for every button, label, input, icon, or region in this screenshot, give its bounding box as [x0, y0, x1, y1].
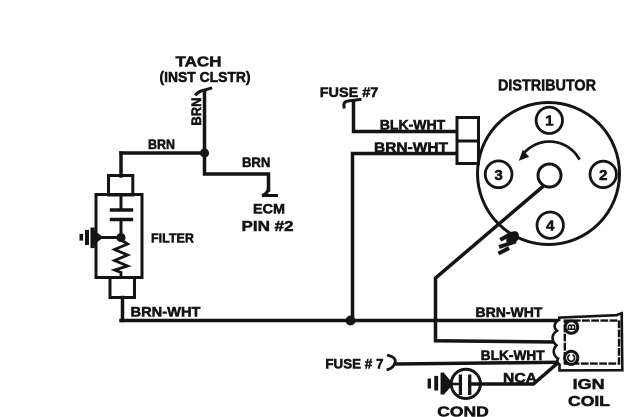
- rotor circle: [538, 164, 561, 187]
- condenser case mid bar: [434, 376, 438, 391]
- ign coil inner dashed box: [565, 321, 619, 364]
- svg-text:IGN: IGN: [573, 377, 605, 393]
- wire TACH vertical (BRN): [203, 91, 207, 154]
- condenser circle: [451, 369, 480, 398]
- ign coil outer case: [553, 313, 623, 370]
- wire plate to inner node: [120, 220, 123, 240]
- terminal circle 1: [536, 107, 562, 133]
- svg-text:DISTRIBUTOR: DISTRIBUTOR: [498, 78, 596, 95]
- svg-text:COIL: COIL: [568, 394, 610, 410]
- wire BLK-WHT to coil C: [397, 362, 558, 364]
- ground hatch stroke 3: [500, 249, 507, 253]
- svg-text:BLK-WHT: BLK-WHT: [481, 348, 546, 363]
- svg-text:BRN: BRN: [148, 137, 175, 152]
- svg-text:COND: COND: [437, 405, 489, 417]
- svg-text:BRN-WHT: BRN-WHT: [476, 305, 544, 320]
- terminal circle 2: [590, 161, 616, 187]
- condenser case tall bar: [441, 373, 445, 395]
- resistor inside filter: [115, 240, 128, 278]
- coil terminal B: [565, 321, 578, 334]
- distributor connector upper pin box: [457, 118, 479, 142]
- terminal circle 4: [537, 212, 563, 238]
- condenser case small bar: [428, 379, 431, 389]
- case capacitor arrow triangle: [94, 231, 102, 244]
- wire BRN-WHT bus horizontal: [121, 319, 566, 323]
- case capacitor tall bar: [90, 228, 94, 249]
- svg-text:BRN-WHT: BRN-WHT: [131, 304, 201, 320]
- svg-text:BLK-WHT: BLK-WHT: [380, 117, 446, 133]
- connector hook fuse bottom: [388, 356, 395, 370]
- wire NCA condenser to coil C: [470, 363, 558, 384]
- condenser internal plates: [460, 376, 469, 393]
- distributor connector lower pin box: [457, 141, 479, 164]
- wire wall to inner node: [97, 236, 121, 239]
- terminal circle 3: [485, 161, 512, 188]
- distributor body circle: [478, 103, 620, 245]
- wire down into filter top: [119, 153, 123, 176]
- filter body box: [96, 195, 142, 278]
- wire junction down to ECM branch: [205, 153, 269, 190]
- svg-text:3: 3: [494, 167, 502, 184]
- svg-text:FUSE # 7: FUSE # 7: [325, 357, 383, 372]
- node TACH (INST CLSTR) label: [160, 54, 251, 87]
- svg-text:BRN: BRN: [189, 98, 204, 126]
- connector hook from fuse 7: [344, 100, 360, 108]
- condenser internal lead: [452, 383, 458, 386]
- svg-text:BRN-WHT: BRN-WHT: [374, 139, 448, 155]
- node junction dot: [200, 148, 209, 157]
- case capacitor mid bar: [85, 230, 89, 245]
- wire BRN horizontal to filter: [121, 151, 205, 155]
- svg-text:ECM: ECM: [253, 201, 285, 217]
- wire filter to BRN-WHT bus: [121, 298, 125, 321]
- svg-text:4: 4: [546, 218, 555, 235]
- coil terminal C: [565, 351, 578, 364]
- connector hook to TACH: [196, 88, 210, 94]
- ground dot on distributor case: [504, 229, 522, 248]
- svg-text:2: 2: [599, 167, 607, 184]
- svg-text:PIN #2: PIN #2: [242, 218, 294, 235]
- filter top terminal: [109, 176, 133, 196]
- svg-text:NCA: NCA: [503, 370, 537, 386]
- node ECM PIN #2 label: [242, 201, 294, 236]
- ground hatch stroke 2: [501, 242, 514, 246]
- node junction dot on bus: [346, 316, 356, 326]
- filter bottom terminal: [110, 278, 135, 298]
- capacitor inside filter plates: [112, 210, 132, 220]
- wire fuse7 to distributor BLK-WHT: [354, 102, 459, 132]
- svg-text:TACH: TACH: [176, 54, 222, 71]
- label IGN COIL: [568, 377, 610, 410]
- rotation arc arrow: [524, 142, 579, 159]
- case capacitor symbol left of filter: small bar: [80, 234, 84, 241]
- node inner junction dot: [116, 233, 125, 242]
- condenser arrow triangle: [444, 374, 453, 394]
- ground hatch stroke 1: [502, 234, 511, 239]
- connector hook to ECM: [262, 188, 277, 196]
- svg-text:1: 1: [545, 113, 554, 130]
- svg-text:BRN: BRN: [242, 155, 271, 170]
- svg-text:FUSE #7: FUSE #7: [320, 84, 379, 100]
- capacitor inside filter stub: [120, 196, 123, 210]
- svg-text:(INST CLSTR): (INST CLSTR): [160, 70, 251, 86]
- wire BRN-WHT branch to distributor: [353, 154, 459, 321]
- svg-text:FILTER: FILTER: [151, 231, 195, 246]
- wire rotor to ign coil: [436, 187, 553, 343]
